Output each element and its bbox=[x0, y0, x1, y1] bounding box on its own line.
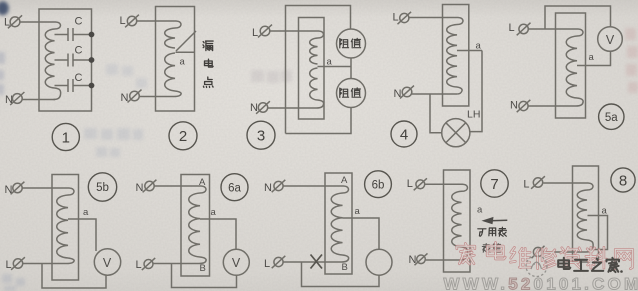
inductor winding (ckt5b) bbox=[57, 195, 68, 258]
coil bottom lead (ckt2) bbox=[170, 91, 181, 97]
wire L with break (ckt6b) bbox=[283, 261, 337, 263]
circled number 2 bbox=[169, 122, 197, 150]
lamp LH circle bbox=[442, 119, 470, 147]
svg-text:A: A bbox=[199, 177, 206, 188]
circuit 8 enclosure box bbox=[573, 166, 599, 262]
wire L to coil top (ckt7) bbox=[425, 184, 468, 191]
coil bottom lead (ckt6a) bbox=[195, 257, 206, 264]
wire L to coil top (ckt1) bbox=[20, 22, 60, 29]
inductor winding lower (ckt3) bbox=[310, 68, 318, 100]
coil bottom lead (ckt5b) bbox=[63, 258, 74, 264]
wire N (ckt1) bbox=[22, 99, 55, 101]
inductor winding upper (ckt2) bbox=[165, 28, 175, 48]
wire N (ckt2) bbox=[139, 96, 170, 98]
circled number 5b bbox=[88, 173, 116, 201]
svg-text:C: C bbox=[75, 72, 83, 84]
circuit 2 enclosure box bbox=[156, 7, 195, 112]
circled number 7 bbox=[481, 170, 508, 197]
circuit 5a enclosure box bbox=[556, 13, 586, 118]
leakage point arm (ckt2) bbox=[176, 31, 196, 51]
svg-text:a: a bbox=[355, 206, 361, 217]
svg-text:L: L bbox=[523, 179, 529, 191]
wire N (ckt8) bbox=[543, 251, 581, 253]
inductor winding T1 (ckt1) bbox=[45, 29, 54, 88]
terminal L (ckt6b) symbol bbox=[272, 256, 286, 268]
voltmeter V circle (ckt5a) bbox=[598, 27, 623, 52]
svg-text:4: 4 bbox=[400, 126, 408, 143]
svg-text:B: B bbox=[342, 262, 348, 273]
svg-text:3: 3 bbox=[257, 128, 265, 145]
coil bottom lead (ckt7) bbox=[458, 247, 468, 260]
svg-text:N: N bbox=[136, 182, 144, 194]
svg-text:5b: 5b bbox=[96, 182, 109, 194]
ghost blobs near circuit 3 bbox=[251, 70, 292, 83]
wire L to coil top (ckt5a) bbox=[528, 29, 583, 36]
voltmeter V circle (ckt6a) bbox=[223, 249, 249, 275]
circled number 3 bbox=[247, 121, 275, 149]
watermark red text 家电维修资料网 bbox=[457, 243, 633, 269]
terminal N (ckt1) symbol bbox=[10, 92, 24, 105]
svg-text:C: C bbox=[75, 45, 83, 57]
label multimeter 万用表 bbox=[478, 227, 507, 236]
terminal N (ckt3) symbol bbox=[256, 101, 270, 114]
capacitor C2 plates bbox=[68, 54, 73, 67]
tap wire a (ckt6a) bbox=[200, 219, 236, 249]
outer voltmeter loop (ckt5a) bbox=[545, 6, 611, 29]
svg-text:L: L bbox=[407, 178, 413, 190]
lamp LH cross bbox=[446, 123, 466, 143]
svg-text:WWW.520101.COM: WWW.520101.COM bbox=[444, 275, 638, 291]
coil bottom lead hook (ckt4) bbox=[457, 87, 462, 94]
tap wire a (ckt8) bbox=[588, 216, 608, 250]
terminal L (ckt5b) symbol bbox=[11, 257, 25, 270]
inductor winding (ckt8) bbox=[577, 190, 587, 240]
capacitor C3 branch wire left bbox=[55, 85, 69, 87]
circled number 5a bbox=[599, 104, 624, 129]
inductor winding (ckt7) bbox=[452, 191, 462, 247]
svg-text:N: N bbox=[510, 100, 518, 112]
link wire between meters (ckt3) bbox=[350, 58, 352, 79]
wire L to coil top (ckt8) bbox=[543, 183, 593, 190]
voltmeter V circle (ckt5b) bbox=[94, 249, 120, 275]
coil bottom lead (ckt5a) bbox=[572, 98, 583, 106]
svg-text:a: a bbox=[83, 207, 89, 218]
wire N (ckt5a) bbox=[528, 105, 572, 107]
capacitor C3 branch wire right bbox=[73, 85, 92, 87]
voltmeter loop bottom (ckt6a) bbox=[172, 264, 237, 288]
terminal N symbol (ckt8) bbox=[532, 246, 545, 258]
terminal N (ckt5b) symbol bbox=[11, 182, 25, 195]
svg-text:a: a bbox=[589, 52, 595, 63]
voltmeter loop bottom (ckt5b) bbox=[42, 264, 106, 289]
inductor winding (ckt6b) bbox=[331, 193, 342, 255]
capacitor C1 branch wire left bbox=[55, 34, 69, 36]
wire N to coil top (ckt6b) bbox=[283, 186, 348, 193]
terminal L (ckt5a) symbol bbox=[517, 23, 531, 36]
coil bottom lead (ckt3) bbox=[312, 100, 324, 108]
svg-text:L: L bbox=[509, 22, 515, 34]
ohmmeter R1 label 阻值 bbox=[340, 38, 361, 48]
svg-text:B: B bbox=[200, 263, 206, 274]
tap drop wire (ckt4) bbox=[470, 51, 482, 132]
terminal L (ckt7) symbol bbox=[414, 178, 427, 190]
terminal L (ckt3) symbol bbox=[258, 25, 272, 38]
wire N to coil top (ckt5b) bbox=[22, 188, 74, 195]
svg-text:a: a bbox=[180, 57, 186, 68]
tap wire a (ckt3) bbox=[318, 66, 352, 68]
circuit 1 enclosure box bbox=[39, 9, 92, 111]
terminal N (ckt6b) symbol bbox=[272, 180, 286, 192]
tap wire a (ckt6b) bbox=[343, 218, 380, 249]
junction dot 2 (ckt1) bbox=[89, 57, 95, 63]
svg-text:a: a bbox=[477, 205, 483, 216]
wire L (ckt6a) bbox=[153, 263, 195, 265]
ohmmeter R2 label 阻值 bbox=[340, 88, 361, 98]
terminal N (ckt2) symbol bbox=[128, 90, 142, 103]
terminal L (ckt4) symbol bbox=[398, 12, 412, 24]
tap wire a (ckt4) bbox=[457, 50, 482, 52]
watermark dark text 电工之家 bbox=[558, 258, 623, 273]
ohmmeter R2 circle (ckt3) bbox=[337, 79, 366, 108]
circled number 1 bbox=[52, 123, 79, 150]
svg-text:5a: 5a bbox=[605, 112, 618, 124]
ghost ink blob top-left bbox=[0, 1, 9, 15]
ghost text row under circuit 1 bbox=[84, 128, 143, 157]
wire N (ckt7) bbox=[426, 259, 458, 261]
svg-text:N: N bbox=[121, 92, 129, 104]
terminal L (ckt8) symbol bbox=[531, 176, 545, 189]
circled number 4 bbox=[391, 121, 417, 147]
circled number 8 bbox=[611, 168, 635, 192]
terminal N (ckt5a) symbol bbox=[517, 100, 531, 112]
capacitor C2 branch wire left bbox=[55, 59, 69, 61]
ghost chars mid-left bbox=[106, 64, 147, 88]
circled number 6a bbox=[221, 174, 248, 201]
capacitor C3 plates bbox=[68, 79, 73, 92]
coil bottom lead (ckt6b) bbox=[338, 255, 349, 262]
wire L to coil top (ckt4) bbox=[409, 18, 463, 25]
svg-text:6a: 6a bbox=[228, 182, 241, 194]
svg-text:a: a bbox=[211, 207, 217, 218]
circled number 6b bbox=[365, 171, 392, 198]
outer loop bottom wire (ckt3) bbox=[286, 108, 352, 134]
branch wire to lamp (ckt4) bbox=[430, 94, 442, 133]
svg-text:L: L bbox=[252, 27, 258, 39]
label probe 表笔 bbox=[482, 244, 500, 253]
meter loop bottom (ckt6b) bbox=[302, 262, 380, 287]
svg-text:V: V bbox=[103, 256, 112, 270]
wire L to coil top (ckt3) bbox=[270, 31, 324, 38]
inductor winding lower (ckt2) bbox=[165, 53, 175, 91]
wire L to coil top (ckt2) bbox=[137, 21, 181, 28]
inductor winding upper (ckt3) bbox=[310, 38, 318, 64]
wire N (ckt3) bbox=[268, 107, 312, 109]
coil bottom lead (ckt1) bbox=[54, 88, 61, 100]
capacitor C2 branch wire right bbox=[73, 59, 92, 61]
coil bottom lead (ckt8) bbox=[581, 240, 593, 252]
probe arrow (ckt7) bbox=[482, 217, 508, 224]
circuit 6b enclosure box bbox=[325, 173, 352, 274]
circuit 3 enclosure box bbox=[299, 18, 325, 120]
junction dot 1 (ckt1) bbox=[89, 32, 95, 38]
svg-text:L: L bbox=[393, 12, 399, 24]
svg-text:V: V bbox=[606, 33, 615, 47]
inductor winding (ckt4) bbox=[447, 25, 457, 88]
ohmmeter R1 circle (ckt3) bbox=[337, 29, 366, 58]
svg-text:L: L bbox=[264, 258, 270, 270]
terminal L (ckt2) symbol bbox=[125, 15, 139, 28]
terminal N (ckt7) symbol bbox=[415, 253, 428, 265]
ghost pink right edge bbox=[625, 28, 638, 93]
svg-text:L: L bbox=[120, 15, 126, 27]
terminal N (ckt6a) symbol bbox=[143, 180, 157, 193]
ghost marks bottom-left bbox=[2, 274, 25, 291]
terminal L (ckt1) symbol bbox=[8, 15, 22, 28]
circuit 7 enclosure box bbox=[444, 170, 471, 272]
terminal L (ckt6a) symbol bbox=[142, 258, 155, 270]
terminal N (ckt4) symbol bbox=[400, 86, 414, 99]
inductor winding (ckt6a) bbox=[189, 193, 200, 257]
svg-text:L: L bbox=[136, 259, 142, 271]
outer measuring loop (ckt3) bbox=[286, 6, 351, 134]
circuit 6a enclosure box bbox=[181, 175, 210, 277]
label leakage point 漏电点 bbox=[203, 41, 213, 87]
tap wire a (ckt5b) bbox=[68, 219, 96, 251]
tap stub wire (ckt2) bbox=[176, 51, 195, 53]
svg-text:2: 2 bbox=[179, 128, 187, 145]
svg-text:LH: LH bbox=[467, 109, 480, 121]
wire N to coil top (ckt6a) bbox=[154, 186, 206, 193]
svg-text:7: 7 bbox=[490, 176, 498, 193]
circuit 5b enclosure box bbox=[52, 175, 79, 281]
junction dot 3 (ckt1) bbox=[89, 83, 95, 89]
svg-text:C: C bbox=[75, 16, 83, 28]
capacitor C1 plates bbox=[68, 28, 73, 41]
svg-text:8: 8 bbox=[619, 172, 627, 189]
svg-text:1: 1 bbox=[62, 129, 70, 146]
meter circle (ckt6b) bbox=[366, 249, 392, 275]
svg-text:A: A bbox=[341, 175, 348, 186]
capacitor C1 branch wire right bbox=[73, 34, 92, 36]
tap wire a (ckt5a) bbox=[577, 51, 611, 65]
svg-text:N: N bbox=[264, 182, 272, 194]
svg-text:V: V bbox=[232, 256, 241, 270]
wire L (ckt5b) bbox=[23, 263, 63, 265]
break mark X (ckt6b) bbox=[311, 255, 323, 269]
scan noise bbox=[0, 0, 1, 1]
ghost marks left edge bbox=[0, 52, 5, 95]
svg-text:6b: 6b bbox=[372, 179, 385, 191]
inductor winding (ckt5a) bbox=[566, 36, 577, 98]
wire N (ckt4) bbox=[412, 93, 457, 95]
circuit 4 enclosure box bbox=[443, 5, 469, 107]
watermark site logo circle bbox=[526, 256, 547, 277]
